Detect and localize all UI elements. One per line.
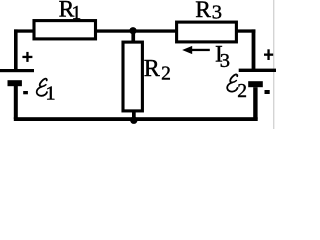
wire top-left horizontal (corner to R1): [14, 29, 35, 32]
wire top-right horizontal (R3 to corner): [236, 29, 255, 32]
current arrow I3 (pointing left): [182, 46, 210, 54]
polarity - of E1: [23, 91, 28, 94]
polarity - of E2: [265, 90, 270, 94]
battery E1 (long positive plate): [0, 69, 34, 72]
label E1 (script emf symbol): [37, 79, 56, 105]
faint page-edge line at right: [273, 0, 274, 129]
node junction bottom (dot): [130, 117, 137, 124]
wire left vertical (E1 + terminal up to top-left corner): [14, 29, 18, 70]
label I3: [215, 42, 230, 73]
bottom wire: [14, 117, 258, 121]
label R2: [144, 56, 171, 84]
label R3: [195, 0, 222, 24]
svg-text:1: 1: [45, 83, 55, 105]
wire top middle (R1 to R3 through node): [95, 29, 177, 32]
wire right vertical (corner down to E2): [252, 29, 256, 70]
resistor R2: [123, 42, 142, 111]
svg-text:2: 2: [237, 81, 247, 102]
battery E2 (long positive plate): [239, 69, 276, 72]
svg-text:3: 3: [220, 50, 230, 72]
wire stub from E1 negative plate down to bottom wire: [14, 86, 18, 119]
resistor R1: [34, 21, 96, 39]
svg-text:2: 2: [161, 63, 171, 84]
node junction top (dot): [129, 27, 136, 34]
resistor R3: [177, 22, 237, 42]
wire stub from R2 down to bottom node: [132, 110, 136, 118]
battery E2 (short thick negative plate): [248, 81, 263, 87]
wire stub from bottom wire up to E2 negative plate: [253, 87, 257, 119]
wire stub from top node down to R2: [131, 31, 135, 42]
polarity + of E1: [22, 52, 32, 62]
battery E1 (short thick negative plate): [8, 80, 22, 86]
svg-text:R: R: [195, 0, 211, 23]
svg-text:1: 1: [72, 3, 82, 24]
svg-text:3: 3: [212, 2, 222, 24]
label R1: [59, 0, 82, 24]
polarity + of E2: [264, 49, 273, 60]
label E2 (script emf symbol): [227, 74, 247, 101]
svg-text:R: R: [144, 56, 160, 82]
